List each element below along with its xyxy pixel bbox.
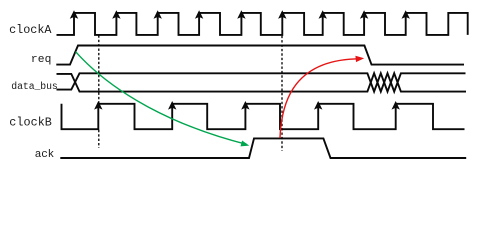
green arrowhead [241, 141, 250, 147]
wire req waveform [56, 46, 464, 65]
wire clockA waveform [57, 13, 468, 35]
wire ack waveform [60, 138, 466, 158]
svg-text:clockB: clockB [9, 115, 52, 129]
clockA rising edge arrowheads [70, 10, 410, 19]
wire data_bus rail A (top-left crossing to bottom rail, zigzag, back) [57, 73, 466, 91]
svg-text:ack: ack [35, 149, 55, 161]
svg-text:req: req [31, 54, 52, 66]
red causality arrow ack->req [280, 59, 362, 138]
dashed marker line 1 (clockB first rising edge) [98, 35, 100, 148]
dashed marker line 2 (clockA sampling edge) [281, 36, 283, 151]
svg-text:data_bus: data_bus [11, 81, 58, 92]
wire data_bus rail B (bottom-left crossing to top rail, zigzag, back) [57, 73, 467, 91]
wire clockB waveform [62, 104, 465, 129]
green causality arrow req->ack [76, 52, 247, 145]
clockB rising edge arrowheads [94, 101, 400, 110]
red arrowhead [355, 56, 364, 62]
svg-text:clockA: clockA [9, 23, 52, 37]
